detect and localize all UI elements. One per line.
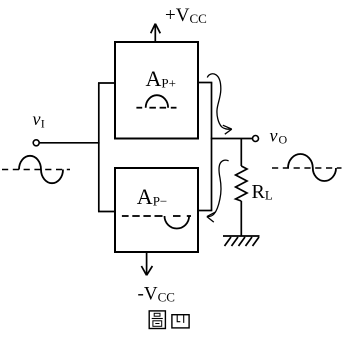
wire: right output bus vertical [211,83,213,211]
svg-text:v: v [33,109,41,129]
wire: left input bus vertical [98,83,100,212]
+VCC supply arrow [151,24,161,42]
caption 四 (drawn glyph) [172,315,189,328]
wire: from AP+ output [198,82,212,84]
svg-text:v: v [270,126,278,146]
output terminal node [253,136,259,142]
output waveform dashed axis [272,167,342,169]
wire: input lead from vI terminal [39,142,100,144]
ground [223,236,260,246]
input waveform dashed axis [2,169,70,171]
svg-text:I: I [41,117,45,131]
positive half-wave symbol inside AP+ [136,95,176,108]
wire: to AP+ input [98,82,115,84]
output sine waveform [288,154,336,181]
svg-text:O: O [279,133,288,147]
wire: to AP- input [98,211,115,213]
input sine waveform [19,156,63,183]
wire: from AP- output [198,210,212,212]
-VCC supply arrow [141,253,152,276]
input terminal node [33,140,39,146]
op-amp block AP+ (top amplifier box) [115,42,198,139]
op-amp block AP- (bottom amplifier box) [115,168,198,252]
wire: output lead to vO terminal [211,138,253,140]
caption 圖 (drawn glyph) [149,311,165,329]
signal path arrow through AP+ (curved) [207,74,232,134]
negative half-wave symbol inside AP- [122,216,191,229]
resistor RL [236,139,247,237]
signal path arrow through AP- (curved) [207,160,229,222]
